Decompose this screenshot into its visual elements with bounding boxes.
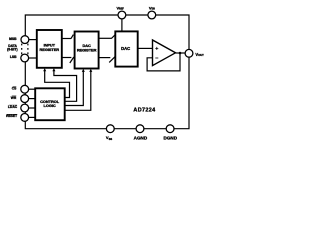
- svg-text:MSB: MSB: [9, 37, 17, 41]
- svg-text:LSB: LSB: [10, 55, 17, 59]
- svg-text:AGND: AGND: [134, 136, 148, 141]
- svg-text:CS: CS: [12, 87, 17, 91]
- svg-text:RESET: RESET: [6, 114, 17, 118]
- svg-text:REGISTER: REGISTER: [77, 48, 97, 53]
- svg-text:AD7224: AD7224: [133, 107, 155, 113]
- svg-text:(8-BIT): (8-BIT): [7, 48, 17, 52]
- svg-text:REGISTER: REGISTER: [40, 47, 60, 52]
- svg-text:DAC: DAC: [121, 46, 130, 51]
- svg-text:WR: WR: [11, 96, 17, 100]
- svg-text:DGND: DGND: [164, 136, 178, 141]
- svg-text:LOGIC: LOGIC: [44, 103, 56, 108]
- svg-text:LDAC: LDAC: [8, 105, 18, 109]
